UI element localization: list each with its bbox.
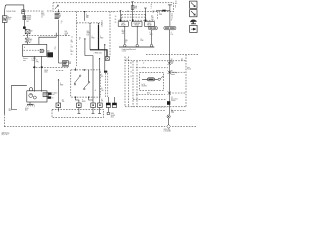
- module row dash 2: [170, 92, 187, 94]
- fuse F1: [23, 16, 26, 20]
- svg-text:B: B: [55, 48, 56, 50]
- dashed line right boundary: [146, 54, 199, 56]
- s5 label: [111, 113, 116, 118]
- svg-text:41: 41: [61, 21, 63, 23]
- fuse block bottom bar: [119, 46, 154, 48]
- ground label right: [164, 129, 172, 133]
- svg-text:12: 12: [153, 12, 155, 14]
- dashed wire 2: [47, 10, 53, 12]
- wire pill1 down: [151, 30, 153, 45]
- ignition switch contact: [55, 5, 59, 12]
- svg-text:ORN: ORN: [65, 33, 68, 35]
- svg-text:1150: 1150: [171, 112, 174, 114]
- switch out 1: [75, 97, 90, 104]
- svg-text:PNK: PNK: [92, 38, 95, 40]
- svg-text:2 RED 1340: 2 RED 1340: [94, 53, 102, 55]
- svg-text:S2: S2: [31, 30, 33, 32]
- generator inner connector: [40, 49, 45, 52]
- svg-text:G100: G100: [25, 108, 29, 110]
- connector squares: [56, 103, 102, 108]
- left wire label small: [9, 109, 12, 113]
- svg-text:5 BLK 2240: 5 BLK 2240: [6, 11, 15, 13]
- legend icon 1: [190, 1, 197, 8]
- svg-text:140: 140: [65, 31, 68, 33]
- module corner text: [126, 58, 128, 60]
- svg-text:B: B: [151, 6, 152, 8]
- generator label below: [23, 58, 37, 62]
- fuse small label: [31, 39, 33, 43]
- svg-text:12: 12: [143, 63, 145, 65]
- svg-text:2241: 2241: [41, 15, 45, 17]
- svg-text:B2: B2: [130, 67, 132, 69]
- svg-text:2: 2: [61, 23, 62, 25]
- conn blob labels: [55, 47, 57, 51]
- dashed row right low2: [152, 109, 186, 111]
- svg-text:350: 350: [41, 11, 44, 13]
- svg-text:YEL: YEL: [71, 42, 74, 44]
- wire down thin: [89, 25, 91, 50]
- svg-text:B: B: [44, 50, 45, 52]
- svg-text:PPL: PPL: [36, 61, 39, 63]
- dashed boundary mid-left: [23, 36, 73, 39]
- svg-text:BLK: BLK: [71, 51, 74, 53]
- svg-text:1450: 1450: [111, 116, 114, 118]
- svg-text:BRN: BRN: [82, 101, 85, 103]
- relay R2: [132, 22, 142, 27]
- svg-text:239: 239: [151, 19, 154, 21]
- svg-text:441: 441: [124, 41, 127, 43]
- pill label 1: [148, 26, 157, 29]
- pin texts module: [130, 62, 144, 79]
- inner box texts: [142, 84, 151, 95]
- wire to genbox: [26, 43, 28, 45]
- svg-text:11: 11: [95, 90, 97, 92]
- legend icon 4: [190, 25, 197, 32]
- legend icon hoist: [190, 19, 197, 24]
- ignition switch box: [53, 3, 174, 12]
- page boundary dashed bottom: [4, 126, 165, 128]
- wire right label 2: [171, 109, 174, 114]
- text tr: [79, 31, 90, 41]
- pin marks motor wires: [34, 66, 43, 68]
- small label S: [113, 10, 155, 14]
- pin box bottom: [58, 11, 86, 12]
- svg-text:E4: E4: [171, 16, 173, 18]
- relay R3: [145, 22, 155, 27]
- svg-text:86: 86: [115, 19, 117, 21]
- squares labels: [62, 99, 104, 103]
- wire fuse down: [23, 20, 25, 27]
- pin triangles: [89, 23, 99, 25]
- svg-text:C3: C3: [130, 72, 132, 74]
- svg-text:210: 210: [71, 46, 74, 48]
- svg-text:B8: B8: [69, 63, 71, 65]
- elbow label: [94, 53, 102, 55]
- svg-text:340: 340: [65, 35, 68, 37]
- svg-text:30: 30: [115, 16, 117, 18]
- svg-text:50: 50: [36, 60, 38, 62]
- switch wire labels: [60, 74, 104, 92]
- svg-text:BRN: BRN: [60, 84, 63, 86]
- pill1 wire label: [150, 32, 153, 36]
- svg-text:DK: DK: [171, 34, 173, 36]
- fuse rows ends: [122, 14, 146, 20]
- starter tabs: [48, 92, 52, 98]
- svg-text:PNK: PNK: [141, 40, 144, 42]
- strip stubs: [58, 108, 101, 114]
- svg-text:YEL: YEL: [62, 101, 65, 103]
- fuse 10A: [131, 5, 137, 10]
- svg-text:FL: FL: [31, 39, 33, 41]
- generator inner dashes: [24, 46, 40, 50]
- thick elbow: [90, 50, 107, 57]
- connector label right: [101, 21, 103, 28]
- wire thick label: [100, 36, 104, 40]
- switch blade 2: [84, 81, 90, 89]
- module text right: [187, 66, 191, 71]
- page boundary dashed bottom right: [172, 126, 196, 128]
- inner box: [140, 72, 164, 90]
- relay wires down: [125, 26, 137, 44]
- switch out 2: [89, 97, 93, 100]
- ignition text mid: [65, 31, 68, 37]
- svg-text:B: B: [171, 19, 172, 21]
- wire battery to connector: [5, 5, 24, 16]
- svg-text:S: S: [113, 11, 114, 13]
- wire thin label: [92, 36, 95, 40]
- svg-text:PWR/TRN: PWR/TRN: [134, 23, 141, 25]
- fuse block small: [25, 38, 30, 42]
- wire relay 1: [120, 10, 122, 22]
- relay wire labels: [122, 30, 144, 44]
- wire ign 2: [84, 12, 86, 21]
- switch stub top: [75, 68, 85, 71]
- relay R1: [118, 22, 128, 27]
- svg-text:HDLP: HDLP: [148, 23, 152, 25]
- starter motor circles: [29, 94, 36, 99]
- battery B1: [2, 16, 7, 23]
- dashed vert boundary: [75, 12, 77, 67]
- svg-text:441: 441: [122, 33, 125, 35]
- connector C100: [22, 10, 25, 14]
- wire relay 3: [144, 8, 147, 22]
- bottom left text: [2, 131, 10, 136]
- module inner bottom: [136, 94, 165, 96]
- svg-text:2: 2: [31, 41, 32, 43]
- pill label 2: [164, 26, 176, 29]
- connector right black: [167, 101, 170, 105]
- comb dash 2: [128, 57, 130, 107]
- svg-text:(42) 2 of 2: (42) 2 of 2: [2, 134, 9, 136]
- feed wire fuse: [131, 2, 133, 22]
- relay pin row: [118, 19, 155, 21]
- svg-text:GRY: GRY: [150, 34, 153, 36]
- ignition position labels: [55, 13, 61, 19]
- module row dash 1: [170, 71, 187, 73]
- wire right long: [99, 58, 100, 103]
- conn small box: [59, 61, 70, 66]
- svg-text:43: 43: [71, 40, 73, 42]
- wire down thick: [98, 25, 100, 50]
- comb dash 3: [132, 61, 134, 107]
- ground splice right: [167, 115, 170, 118]
- svg-text:C1: C1: [41, 16, 43, 18]
- fuse block left dashed: [109, 12, 111, 57]
- comb dash 4: [136, 61, 138, 107]
- switch dashed box: [71, 70, 100, 97]
- wire ign 2 label: [86, 14, 89, 19]
- fuse block caption: [122, 48, 137, 53]
- s5 stub below: [107, 108, 109, 115]
- module inner top: [136, 67, 168, 69]
- fuse feed label: [127, 11, 129, 13]
- svg-text:FUSE: FUSE: [27, 17, 31, 19]
- wire ignition label: [60, 14, 62, 25]
- module right dashed: [185, 55, 187, 107]
- svg-text:SIG RTN: SIG RTN: [142, 85, 147, 87]
- wire X mark 0: [168, 62, 171, 65]
- wire to diamond: [168, 118, 170, 125]
- connector squares dark: [106, 103, 116, 108]
- bulb terminals: [124, 44, 153, 47]
- switch blade 1: [74, 75, 81, 85]
- splice S1: [24, 29, 30, 34]
- pill2 wire label: [171, 32, 173, 36]
- svg-text:85: 85: [115, 22, 117, 24]
- ground G1: [27, 104, 35, 108]
- wire pill2 down: [168, 30, 170, 115]
- left cluster wire: [58, 79, 59, 103]
- wire starter left loop: [12, 85, 27, 109]
- fuse row dashes: [122, 14, 146, 17]
- svg-text:12: 12: [171, 17, 173, 19]
- wire ignition down: [58, 20, 60, 63]
- wire label block: [41, 11, 45, 18]
- svg-text:BLK: BLK: [9, 110, 12, 112]
- wire starter ground: [29, 102, 31, 104]
- svg-text:C1: C1: [126, 58, 128, 60]
- wire right of ign: [84, 38, 85, 55]
- switch wire internal: [88, 70, 90, 82]
- wire X mark 1: [168, 71, 171, 74]
- svg-text:B1: B1: [27, 21, 29, 23]
- wire gen bottom 2: [41, 56, 43, 91]
- diamond splice: [167, 125, 171, 129]
- svg-text:B2: B2: [127, 11, 129, 13]
- svg-text:C2: C2: [171, 14, 173, 16]
- svg-text:1250: 1250: [44, 72, 48, 74]
- wire gen bottom 1: [33, 56, 35, 91]
- dashed strip box: [52, 109, 104, 117]
- svg-text:C: C: [151, 8, 152, 10]
- starter motor box: [27, 91, 47, 102]
- connector black: [23, 27, 26, 29]
- wire elbow right: [85, 56, 93, 103]
- dashed boundary motor: [33, 67, 68, 69]
- relay left pin labels: [115, 16, 117, 24]
- svg-text:oid: oid: [52, 94, 54, 96]
- svg-text:Gener-: Gener-: [23, 58, 28, 60]
- splice S3: [105, 57, 109, 61]
- conn small label: [69, 61, 71, 65]
- svg-text:77: 77: [71, 37, 73, 39]
- ign internal wire: [156, 10, 170, 12]
- wire labels motor: [36, 60, 49, 74]
- S5 S6 feeds: [108, 97, 114, 103]
- svg-text:39: 39: [71, 54, 73, 56]
- center col labels: [71, 40, 74, 56]
- resistor element: [142, 76, 164, 81]
- module text mid: [171, 71, 178, 76]
- svg-text:YEL: YEL: [101, 90, 104, 92]
- ground G1 label: [25, 108, 29, 112]
- legend icon 2: [190, 10, 197, 17]
- svg-text:PNK: PNK: [159, 14, 162, 16]
- wire left dashed bottom: [3, 114, 5, 127]
- svg-text:2 of (2249): 2 of (2249): [164, 131, 172, 133]
- module top dashed: [125, 60, 186, 62]
- wire splice down: [26, 34, 28, 38]
- wire fusible link: [23, 14, 25, 16]
- wire label 5 BLK: [6, 11, 15, 13]
- connector block dark: [47, 52, 53, 57]
- svg-text:339: 339: [86, 17, 89, 19]
- wire left long: [3, 22, 5, 114]
- wire c2 mid: [104, 44, 105, 71]
- svg-text:C2: C2: [101, 26, 103, 28]
- text above module: [171, 58, 183, 65]
- dashed stub below ign: [151, 12, 162, 21]
- ign right texts: [175, 1, 177, 9]
- module inner row low: [133, 99, 166, 101]
- svg-text:ery: ery: [8, 19, 11, 21]
- comb dash 1: [124, 57, 126, 107]
- ign box texts right: [151, 3, 173, 21]
- svg-text:EB2: EB2: [134, 7, 137, 9]
- starter terminal circle: [29, 88, 32, 91]
- svg-text:B: B: [52, 97, 53, 99]
- wire pill2 up: [168, 5, 172, 27]
- splice label: [31, 30, 33, 32]
- dashed boundary motor 2: [56, 70, 64, 72]
- svg-text:YEL: YEL: [101, 100, 104, 102]
- dashed wire to ignition sw: [25, 10, 40, 12]
- battery label: [8, 16, 12, 21]
- module bottom dashed: [125, 106, 186, 108]
- wire X mark 2: [168, 91, 171, 94]
- starter solenoid hatch: [43, 93, 48, 97]
- generator box: [23, 33, 57, 57]
- dashed pair: [106, 73, 108, 97]
- svg-text:IGN 1: IGN 1: [121, 23, 125, 25]
- dashed row right low: [152, 106, 167, 108]
- starter tab labels: [52, 93, 57, 100]
- svg-text:S210 (42): S210 (42): [164, 129, 171, 131]
- svg-text:PPL: PPL: [101, 76, 104, 78]
- conn c2 mark: [104, 71, 107, 73]
- svg-text:139: 139: [87, 34, 90, 36]
- fuse label: [27, 15, 33, 23]
- wire gen right: [47, 50, 50, 52]
- svg-text:D1: D1: [130, 76, 132, 78]
- connector right label: [171, 97, 178, 102]
- dashed connector line: [76, 22, 100, 24]
